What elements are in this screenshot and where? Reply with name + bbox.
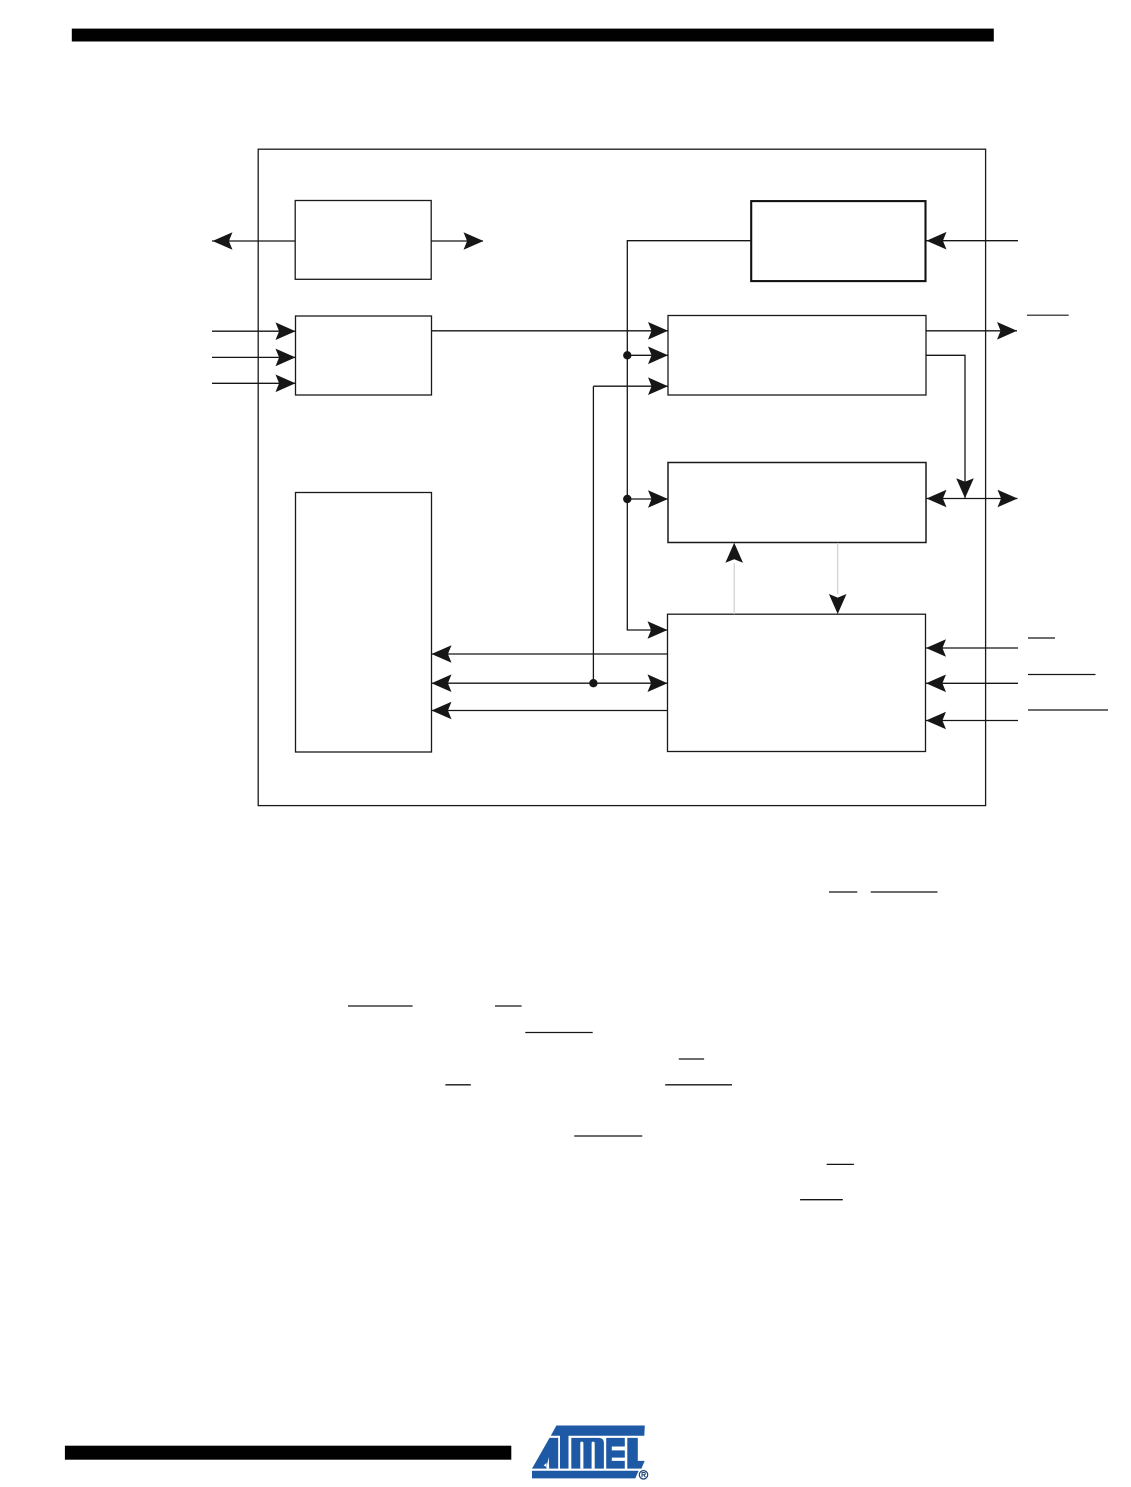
registered trademark: [639, 1471, 647, 1479]
box UBRR (top-right): [751, 201, 925, 281]
body text overline a1: [829, 891, 857, 893]
bus line 3 tall box to pin logic: [432, 710, 668, 712]
junction dot B1: [623, 351, 631, 359]
box clock generator (top-left): [295, 201, 431, 280]
logo letter M: [571, 1438, 604, 1469]
body text overline e2: [665, 1084, 732, 1086]
box pin control logic (bottom-right): [668, 614, 926, 751]
body text overline g1: [827, 1163, 854, 1165]
wire top-left box right output: [431, 240, 483, 242]
footer bar: [65, 1446, 511, 1460]
branch arrow into transmit shift register: [627, 354, 668, 356]
wire net B: UBRR left down to pin logic: [627, 241, 751, 630]
branch arrow into receive shift register: [627, 498, 668, 500]
overline pin label row 3: [1028, 709, 1108, 711]
arrowhead right: [464, 232, 484, 250]
tall register file box (left): [296, 493, 432, 753]
logo letter A notch: [546, 1457, 549, 1469]
body text overline f1: [574, 1135, 642, 1137]
logo letter T stem: [560, 1429, 569, 1469]
junction dot A: [589, 679, 597, 687]
overline pin label TxD: [1027, 314, 1069, 316]
pin logic input 3 from right: [926, 720, 1018, 722]
body text overline b2: [495, 1005, 522, 1007]
Atmel logo: [532, 1426, 648, 1480]
grey clock wire down into pin logic: [837, 543, 839, 594]
wire input 1 to control box: [212, 330, 296, 332]
wire bidirectional at top-left box, left segment: [212, 240, 295, 242]
body text overline e1: [445, 1084, 470, 1086]
arrowhead left out: [213, 232, 233, 250]
outer block-diagram frame: [258, 149, 985, 805]
body text overline c1: [525, 1032, 592, 1034]
wire XCK bidirectional: [927, 498, 1018, 500]
body text overline b1: [348, 1005, 413, 1007]
overline pin label row 1: [1028, 637, 1055, 639]
wire UBRR input from right: [927, 240, 1019, 242]
wire control box to shift register: [432, 330, 669, 332]
pin logic input 2 from right: [926, 682, 1018, 684]
logo letter E: [606, 1438, 625, 1469]
box receive shift register (right-middle lower): [668, 463, 926, 543]
box control (left-middle): [296, 316, 432, 395]
junction dot B2: [623, 495, 631, 503]
bus line 1 tall box to pin logic: [432, 653, 668, 655]
bus line 2 bidirectional with junction: [432, 682, 668, 684]
logo letter A: [532, 1438, 558, 1469]
logo letter L: [627, 1438, 644, 1469]
wire transmit to xck corner: [926, 355, 965, 498]
grey clock wire up into receive shift register: [733, 563, 735, 614]
overline pin label row 2: [1028, 674, 1096, 676]
logo bottom bar: [532, 1471, 639, 1479]
wire TxD output: [926, 330, 1017, 332]
body text overline d1: [679, 1058, 704, 1060]
wire net A: vertical from third input of shift reg down to data-bus line: [592, 386, 594, 683]
pin logic input 1 from right: [926, 647, 1018, 649]
body text overline h1: [800, 1199, 843, 1201]
body text overline a2: [871, 891, 938, 893]
wire input 3 to control box: [212, 382, 296, 384]
logo letter M slit 1: [580, 1442, 583, 1469]
wire input 2 to control box: [212, 356, 296, 358]
header bar: [72, 29, 994, 42]
box transmit shift register (right-middle upper): [668, 316, 926, 396]
logo letter M slit 2: [592, 1442, 595, 1469]
logo letter A notch spur: [544, 1463, 547, 1467]
logo top bar: [551, 1426, 645, 1436]
